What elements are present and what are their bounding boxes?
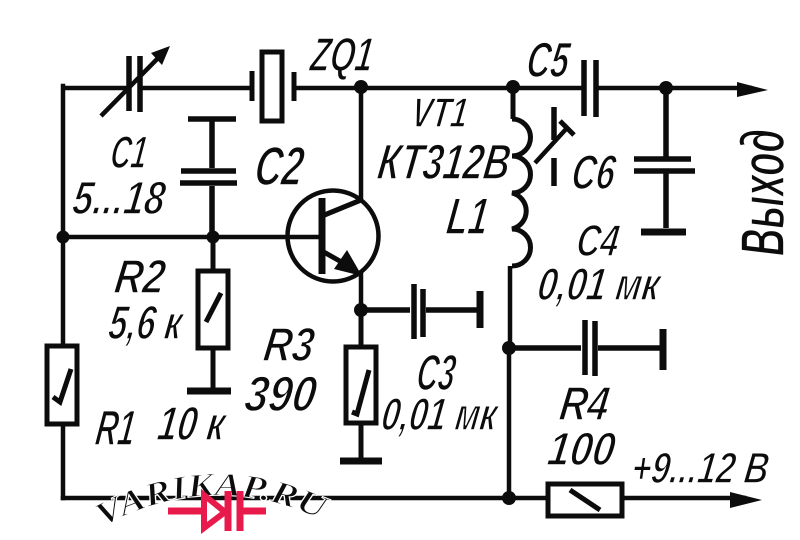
ground R3 xyxy=(340,458,382,465)
output arrow xyxy=(737,82,768,97)
ground R2 xyxy=(187,388,231,395)
svg-text:100: 100 xyxy=(544,423,618,476)
svg-text:C2: C2 xyxy=(251,135,308,197)
node output-cap xyxy=(659,81,673,95)
terminal bar C4 xyxy=(660,329,667,370)
svg-text:VT1: VT1 xyxy=(409,89,472,136)
power arrow xyxy=(730,492,762,508)
wire emitter vertical xyxy=(359,272,364,310)
svg-text:5...18: 5...18 xyxy=(69,172,169,225)
watermark varicap diode (red) xyxy=(168,491,266,531)
wire top-left horizontal xyxy=(64,86,126,91)
node B base-C2 xyxy=(207,231,220,244)
inductor L1 xyxy=(509,87,531,498)
node emitter xyxy=(354,303,368,317)
wire collector vertical xyxy=(359,87,364,200)
wire C1 to ZQ1 xyxy=(143,86,250,91)
node collector-top xyxy=(354,80,368,94)
svg-text:0,01 мк: 0,01 мк xyxy=(379,388,503,440)
svg-text:C1: C1 xyxy=(108,126,151,178)
wire base horizontal xyxy=(63,235,320,240)
svg-text:C6: C6 xyxy=(568,145,619,200)
terminal bar output capacitor xyxy=(641,229,686,236)
wire ZQ1 to C5 xyxy=(296,86,581,91)
capacitor C6 trimmer xyxy=(535,107,574,186)
svg-text:R1: R1 xyxy=(92,400,139,456)
svg-text:10 к: 10 к xyxy=(154,397,230,451)
node L1-top xyxy=(506,80,520,94)
capacitor C1 plates xyxy=(129,56,140,112)
capacitor C5 xyxy=(584,60,596,117)
resistor R1 xyxy=(47,346,77,424)
output coupling capacitor xyxy=(634,88,695,228)
capacitor C2 xyxy=(180,119,237,237)
wire left vertical upper xyxy=(61,86,66,346)
capacitor C1 arrow xyxy=(101,50,166,116)
wire left vertical lower xyxy=(61,424,66,498)
node A base-left xyxy=(57,231,70,244)
svg-text:R3: R3 xyxy=(260,318,318,372)
svg-text:L1: L1 xyxy=(443,188,492,246)
svg-text:390: 390 xyxy=(241,366,320,422)
node C4 xyxy=(502,341,516,355)
wire R4 to power arrow xyxy=(622,496,744,501)
svg-text:0,01 мк: 0,01 мк xyxy=(535,258,666,310)
svg-text:Выход: Выход xyxy=(729,129,798,256)
svg-text:5,6 к: 5,6 к xyxy=(105,296,187,350)
svg-text:+9...12 В: +9...12 В xyxy=(629,444,773,493)
capacitor C3 xyxy=(361,284,477,339)
resistor R3 xyxy=(346,310,376,458)
svg-text:C5: C5 xyxy=(523,32,574,88)
resistor R4 xyxy=(548,484,622,516)
wire C5 to output arrow xyxy=(599,86,750,91)
node bottom L1 xyxy=(502,491,516,505)
transistor VT1 xyxy=(288,191,379,282)
crystal ZQ1 xyxy=(252,52,294,121)
resistor R2 xyxy=(198,237,228,388)
svg-text:ZQ1: ZQ1 xyxy=(306,28,377,82)
svg-text:КТ312В: КТ312В xyxy=(374,134,514,190)
wire bottom horizontal xyxy=(63,496,548,501)
capacitor C4 xyxy=(509,320,660,376)
terminal bar C3 xyxy=(477,291,484,328)
